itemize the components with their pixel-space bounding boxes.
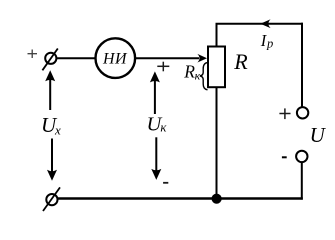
svg-text:R: R	[233, 49, 248, 74]
svg-text:НИ: НИ	[102, 50, 128, 67]
svg-text:x: x	[54, 122, 61, 137]
svg-text:p: p	[266, 36, 273, 50]
svg-text:R: R	[183, 61, 195, 81]
svg-text:к: к	[195, 69, 201, 83]
svg-text:к: к	[160, 120, 167, 135]
svg-text:U: U	[310, 123, 327, 147]
